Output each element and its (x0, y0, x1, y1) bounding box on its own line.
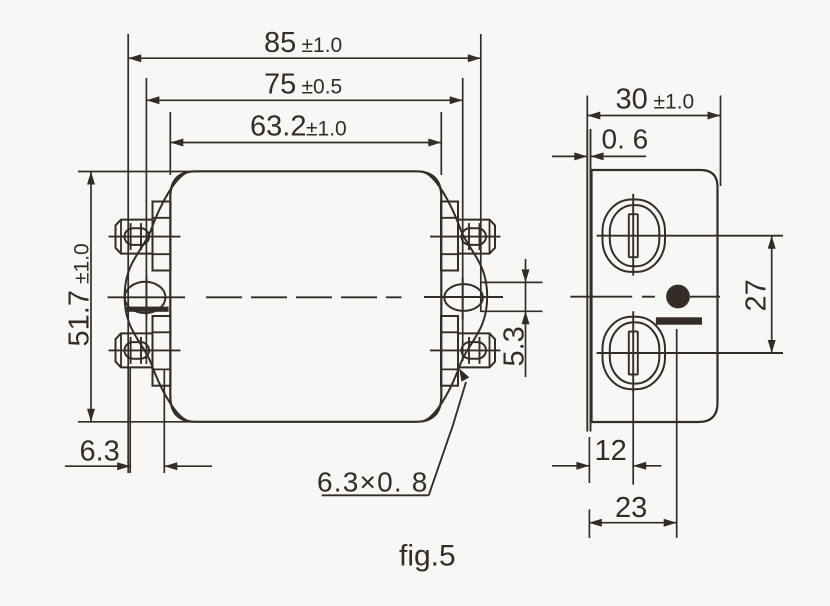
caption fig.5 (399, 540, 456, 573)
ground stud dot (side view) (666, 285, 690, 309)
svg-text:75: 75 (264, 69, 296, 101)
terminal screw lower (side view) (603, 311, 666, 393)
svg-text:85: 85 (264, 27, 296, 59)
dimension 85±1.0 (128, 27, 481, 473)
dimension 30±1.0 (587, 84, 720, 187)
svg-text:±1.0: ±1.0 (71, 243, 94, 284)
centerline (side view) (570, 296, 720, 298)
upper screw centerline / ext (597, 235, 783, 237)
dimension 75±0.5 (146, 69, 462, 365)
left bracket curve (125, 172, 190, 422)
extension from earth bar (676, 329, 678, 538)
terminal lug upper-left (109, 202, 181, 271)
svg-text:5.3: 5.3 (499, 326, 531, 366)
svg-text:51.7: 51.7 (64, 290, 96, 346)
svg-text:6.3×0. 8: 6.3×0. 8 (317, 467, 429, 498)
svg-text:23: 23 (615, 492, 647, 524)
terminal screw upper (side view) (603, 194, 666, 276)
svg-text:12: 12 (595, 435, 627, 467)
svg-text:27: 27 (741, 279, 773, 311)
terminal lug lower-left (109, 316, 181, 386)
dimension 12 (552, 435, 662, 483)
right bracket curve (422, 172, 487, 422)
svg-text:±1.0: ±1.0 (306, 117, 347, 140)
centerline (front view) (206, 296, 402, 298)
extension from lower screw center (632, 393, 634, 485)
terminal lug upper-right (430, 202, 501, 271)
side view body (592, 170, 718, 422)
dimension 23 (589, 492, 677, 538)
line terminal right (front view) (424, 278, 503, 320)
svg-text:0. 6: 0. 6 (602, 124, 649, 155)
svg-text:±0.5: ±0.5 (302, 76, 343, 99)
lower screw centerline / ext (597, 352, 783, 354)
svg-text:±1.0: ±1.0 (654, 91, 695, 114)
filter body (front view) (170, 171, 441, 421)
svg-text:63.2: 63.2 (250, 110, 306, 142)
dimension 6.3 (65, 368, 212, 473)
terminal lug lower-right (430, 316, 501, 386)
svg-text:fig.5: fig.5 (399, 540, 456, 573)
earth tab bar (side view) (656, 317, 702, 324)
dimension 0.6 (552, 124, 648, 161)
dimension 5.3 (480, 259, 543, 377)
svg-text:±1.0: ±1.0 (302, 34, 343, 57)
dimension 27 (741, 236, 776, 353)
dimension 63.2±1.0 (170, 110, 441, 175)
callout 6.3×0.8 (317, 368, 469, 497)
svg-text:6.3: 6.3 (80, 436, 120, 468)
dimension 51.7±1.0 (64, 172, 201, 422)
ground terminal left (front view) (108, 275, 186, 317)
mounting flange edge (0.6 plate) (587, 129, 590, 432)
svg-text:30: 30 (616, 84, 648, 116)
